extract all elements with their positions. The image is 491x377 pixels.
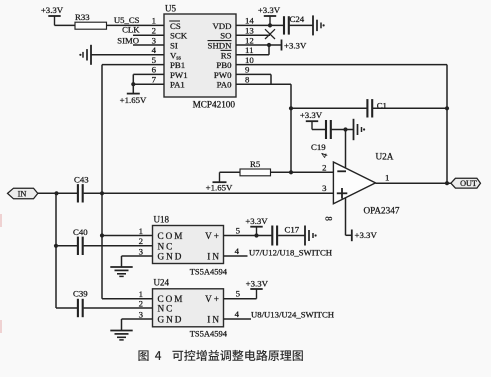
svg-text:CLK: CLK xyxy=(122,25,140,35)
svg-text:2: 2 xyxy=(139,236,143,246)
svg-text:5: 5 xyxy=(152,55,157,65)
svg-text:+3.3V: +3.3V xyxy=(355,230,378,240)
svg-text:PA0: PA0 xyxy=(217,80,232,90)
svg-text:SCK: SCK xyxy=(170,31,188,41)
svg-text:C24: C24 xyxy=(290,14,305,24)
svg-text:3: 3 xyxy=(152,35,157,45)
svg-text:SI: SI xyxy=(170,41,178,51)
svg-text:8: 8 xyxy=(323,216,333,221)
svg-text:RS: RS xyxy=(221,50,232,60)
svg-text:4: 4 xyxy=(235,246,240,256)
svg-text:TS5A4594: TS5A4594 xyxy=(190,266,228,276)
svg-text:GND: GND xyxy=(158,315,184,325)
svg-text:SIMO: SIMO xyxy=(117,36,139,46)
svg-text:6: 6 xyxy=(152,65,157,75)
svg-text:SO: SO xyxy=(220,31,231,41)
svg-text:VDD: VDD xyxy=(212,21,231,31)
svg-text:U8/U13/U24_SWITCH: U8/U13/U24_SWITCH xyxy=(251,310,335,320)
svg-text:C39: C39 xyxy=(73,289,88,299)
svg-text:+3.3V: +3.3V xyxy=(245,216,268,226)
svg-text:C17: C17 xyxy=(285,224,300,234)
svg-text:V+: V+ xyxy=(205,294,221,304)
svg-text:MCP42100: MCP42100 xyxy=(193,100,236,110)
svg-text:+3.3V: +3.3V xyxy=(41,5,64,15)
svg-text:9: 9 xyxy=(245,65,250,75)
svg-text:PW0: PW0 xyxy=(214,70,232,80)
svg-text:OUT: OUT xyxy=(460,179,477,188)
svg-text:U18: U18 xyxy=(154,214,170,224)
svg-text:2: 2 xyxy=(139,298,143,308)
svg-text:7: 7 xyxy=(152,75,157,85)
svg-text:SHDN: SHDN xyxy=(208,41,233,51)
svg-text:4: 4 xyxy=(152,45,157,55)
svg-text:+3.3V: +3.3V xyxy=(300,110,323,120)
svg-text:2: 2 xyxy=(152,26,156,36)
svg-text:+3.3V: +3.3V xyxy=(284,40,307,50)
svg-text:R33: R33 xyxy=(75,12,90,22)
svg-text:4: 4 xyxy=(235,309,240,319)
svg-text:PB1: PB1 xyxy=(170,60,185,70)
svg-text:CS: CS xyxy=(170,21,181,31)
svg-text:+1.65V: +1.65V xyxy=(120,95,147,105)
svg-text:R5: R5 xyxy=(250,159,261,169)
svg-text:1: 1 xyxy=(385,172,389,182)
svg-text:U2A: U2A xyxy=(376,151,394,161)
svg-text:3: 3 xyxy=(139,309,144,319)
svg-text:GND: GND xyxy=(158,252,184,262)
svg-text:+1.65V: +1.65V xyxy=(206,182,233,192)
svg-text:IN: IN xyxy=(207,315,221,325)
svg-text:2: 2 xyxy=(322,162,326,172)
svg-text:+3.3V: +3.3V xyxy=(246,278,269,288)
svg-text:PA1: PA1 xyxy=(170,80,185,90)
svg-text:11: 11 xyxy=(245,45,253,55)
svg-text:C43: C43 xyxy=(74,174,89,184)
svg-text:PW1: PW1 xyxy=(170,70,188,80)
svg-text:PB0: PB0 xyxy=(216,60,232,70)
svg-text:U24: U24 xyxy=(154,277,170,287)
svg-text:U5_CS: U5_CS xyxy=(114,15,140,25)
svg-text:8: 8 xyxy=(245,75,250,85)
svg-text:IN: IN xyxy=(18,190,27,199)
svg-text:NC: NC xyxy=(158,304,175,314)
svg-text:+3.3V: +3.3V xyxy=(258,5,281,15)
svg-text:5: 5 xyxy=(236,289,241,299)
svg-text:U7/U12/U18_SWITCH: U7/U12/U18_SWITCH xyxy=(249,247,333,257)
svg-text:C19: C19 xyxy=(311,142,326,152)
svg-text:1: 1 xyxy=(139,226,143,236)
svg-text:OPA2347: OPA2347 xyxy=(364,205,400,215)
svg-text:3: 3 xyxy=(139,246,144,256)
svg-text:COM: COM xyxy=(158,231,185,241)
svg-text:C40: C40 xyxy=(73,227,88,237)
svg-text:5: 5 xyxy=(236,226,241,236)
svg-text:12: 12 xyxy=(245,35,254,45)
svg-text:14: 14 xyxy=(245,16,254,26)
svg-text:C1: C1 xyxy=(377,101,387,111)
svg-text:1: 1 xyxy=(152,16,156,26)
svg-text:U5: U5 xyxy=(165,4,176,14)
svg-text:TS5A4594: TS5A4594 xyxy=(190,329,228,339)
svg-text:13: 13 xyxy=(245,26,254,36)
svg-text:10: 10 xyxy=(245,55,254,65)
svg-text:NC: NC xyxy=(158,241,175,251)
svg-text:3: 3 xyxy=(322,183,327,193)
svg-text:IN: IN xyxy=(207,252,221,262)
svg-text:V+: V+ xyxy=(205,231,221,241)
